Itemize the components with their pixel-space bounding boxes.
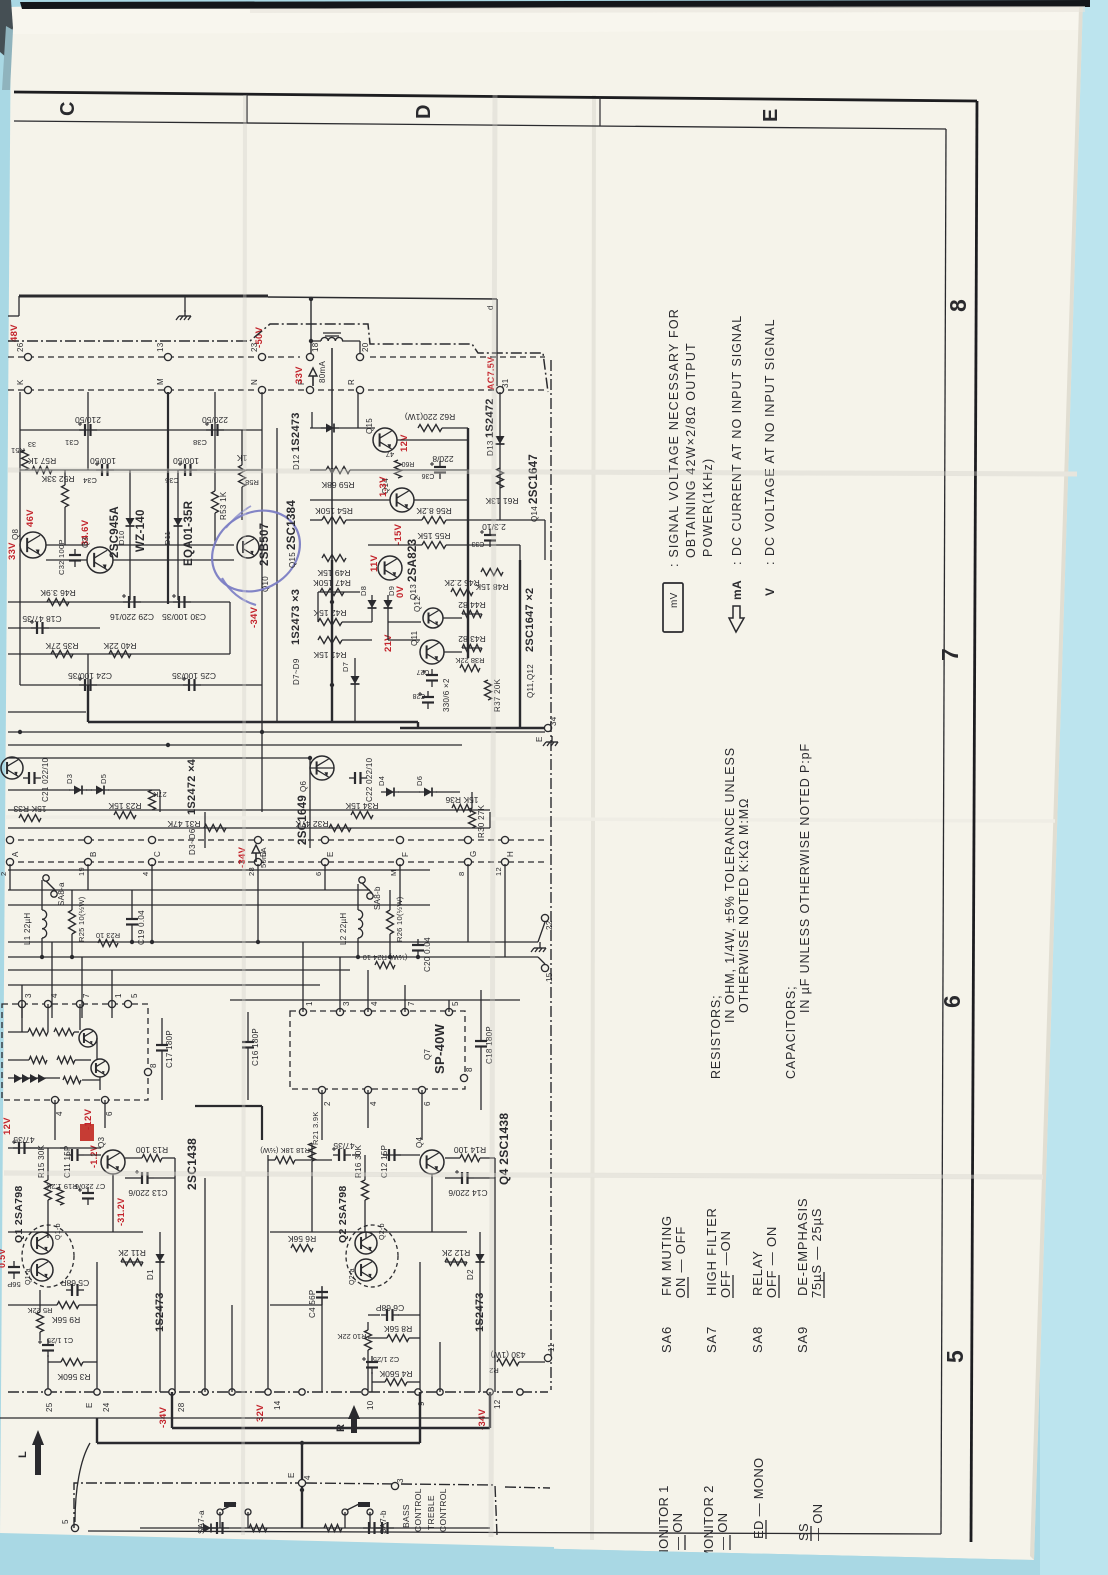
resistor R44 82 <box>462 611 482 618</box>
svg-text:Q1-a: Q1-a <box>25 1268 32 1285</box>
svg-text:7: 7 <box>82 993 91 998</box>
svg-text:C13 220/6: C13 220/6 <box>128 1188 167 1198</box>
transistor Q12 <box>423 608 443 628</box>
bus junction terminal <box>45 1389 51 1395</box>
svg-text:18: 18 <box>311 342 320 352</box>
svg-text:SS: SS <box>796 1523 811 1541</box>
terminal 19/B <box>84 836 91 843</box>
svg-text:Q11,Q12: Q11,Q12 <box>526 664 535 698</box>
svg-text:R4 560K: R4 560K <box>379 1369 412 1379</box>
boundary chain bottom bus <box>8 1391 548 1393</box>
wire dashed row y840 <box>8 839 548 841</box>
resistor R8 56K <box>387 1335 409 1342</box>
svg-text:Q1 2SA798: Q1 2SA798 <box>13 1185 25 1243</box>
terminal 13 <box>164 353 171 360</box>
switch SA8-a <box>43 875 49 881</box>
fold crease horizontal <box>6 817 1055 821</box>
resistor R12 2K <box>445 1259 467 1266</box>
svg-text:C27: C27 <box>416 668 429 675</box>
svg-text:24: 24 <box>102 1402 111 1412</box>
module SP-40W pin 4 <box>364 1008 371 1015</box>
R channel arrow <box>348 1405 360 1419</box>
scanner background bottom band <box>0 1536 1040 1575</box>
hybrid module left dashed box <box>2 1004 148 1100</box>
svg-text:Q15: Q15 <box>288 552 297 568</box>
svg-text:MONITOR 2: MONITOR 2 <box>701 1485 716 1560</box>
capacitor C32 100P <box>69 554 81 556</box>
capacitor C2 1/25 <box>366 1361 378 1363</box>
svg-text:1S2473 ×3: 1S2473 ×3 <box>290 589 302 645</box>
svg-text:1.3V: 1.3V <box>378 476 389 497</box>
wire input left nets <box>8 1147 40 1149</box>
svg-text:ED — MONO: ED — MONO <box>751 1458 766 1539</box>
svg-text:47/35: 47/35 <box>333 1141 355 1151</box>
ground symbol near 22 <box>539 942 541 948</box>
svg-text:11: 11 <box>547 1343 556 1352</box>
module L pin 4 bottom <box>51 1096 58 1103</box>
svg-text:: DC CURRENT AT NO INPUT SIGNA: : DC CURRENT AT NO INPUT SIGNAL <box>730 315 744 565</box>
svg-text:100/50: 100/50 <box>90 456 116 466</box>
capacitor C30 100/35 <box>178 596 180 608</box>
transistor Q3 input 2SC1438 <box>101 1150 125 1174</box>
svg-text:R: R <box>335 1424 347 1432</box>
module L resistors <box>28 1029 48 1036</box>
wire curve to terminal 5 <box>75 1443 90 1522</box>
wire thin y1418 <box>0 1417 490 1419</box>
svg-text:19: 19 <box>77 867 86 876</box>
wire center rail x332 <box>331 348 333 560</box>
svg-text:1: 1 <box>114 993 123 998</box>
svg-text:-31.2V: -31.2V <box>116 1198 126 1226</box>
inductor L1 22uH <box>41 880 43 910</box>
wire Q10 collector drop <box>276 428 278 722</box>
svg-text:R41 15K: R41 15K <box>313 650 346 660</box>
svg-text:R14 100: R14 100 <box>454 1145 486 1155</box>
terminal 8/G <box>464 836 471 843</box>
capacitor C19 0.04 <box>126 918 138 920</box>
svg-text:DE-EMPHASIS: DE-EMPHASIS <box>795 1198 810 1296</box>
svg-text:E: E <box>85 1402 94 1408</box>
svg-text:C14 220/6: C14 220/6 <box>448 1188 487 1198</box>
svg-text:mV: mV <box>669 592 680 608</box>
wire input right nets <box>267 1155 269 1392</box>
svg-text:R43 82: R43 82 <box>458 634 486 644</box>
capacitor C29 220/16 <box>128 596 130 608</box>
resistor R53 1K <box>212 491 219 513</box>
svg-text:0.5V: 0.5V <box>0 1248 7 1268</box>
svg-text:4: 4 <box>303 1475 312 1480</box>
svg-text:R11 2K: R11 2K <box>118 1248 146 1258</box>
wire dashed row y862 <box>8 861 548 863</box>
svg-text:4: 4 <box>141 872 150 876</box>
diode D10 zener WZ-140 <box>126 518 135 526</box>
svg-text:C35: C35 <box>165 476 179 485</box>
svg-text:Q12: Q12 <box>413 596 422 612</box>
svg-text:R35 27K: R35 27K <box>45 641 78 651</box>
svg-text:M: M <box>156 378 165 385</box>
resistor R47 150K <box>320 589 344 596</box>
svg-text:D2: D2 <box>466 1269 475 1280</box>
resistor R32 47K <box>329 825 351 832</box>
svg-text:12: 12 <box>493 1399 502 1409</box>
diode D8 <box>368 600 377 608</box>
fold wash horizontal overlay 2 <box>4 1173 1043 1177</box>
svg-text:C25 100/35: C25 100/35 <box>172 671 216 681</box>
legend mA arrow symbol <box>729 606 744 632</box>
svg-text:TREBLE: TREBLE <box>426 1495 436 1530</box>
svg-text:D1: D1 <box>146 1269 155 1280</box>
wire module rails <box>8 889 370 891</box>
capacitor C33 2.3/10 <box>484 534 496 536</box>
transistor Q8 <box>20 532 46 558</box>
wire output rail bold x468 <box>467 428 469 658</box>
module SP-40W pin 1 <box>299 1008 306 1015</box>
terminal 5 <box>71 1524 78 1531</box>
resistor R54 150K <box>322 517 346 524</box>
resistor R37 20K <box>485 680 492 700</box>
wire long rail y758 <box>8 757 310 759</box>
frame inner thin right line <box>941 129 946 1534</box>
svg-text:Q3: Q3 <box>81 536 90 548</box>
resistor R3 560K <box>61 1359 83 1366</box>
wire output bold rail x520 <box>519 560 521 728</box>
svg-text:R57 1K: R57 1K <box>27 456 56 466</box>
module SP-40W pin 2 bottom <box>318 1086 325 1093</box>
capacitor C5 68P <box>71 1284 73 1296</box>
svg-text:L: L <box>17 1451 29 1458</box>
fold crease horizontal <box>4 1173 1043 1177</box>
resistor R35 27K <box>51 651 73 658</box>
transistor Q4 input 2SC1438 <box>420 1150 444 1174</box>
switch SA8-b <box>359 877 365 883</box>
resistor R10 22K <box>365 1330 372 1350</box>
terminal 26 <box>24 353 31 360</box>
wire y470 out <box>310 469 326 471</box>
svg-text:8: 8 <box>465 1067 474 1072</box>
svg-text:C: C <box>153 851 162 857</box>
resistor R49 15K <box>322 555 346 562</box>
diode D7 <box>351 676 360 684</box>
svg-text:SA6: SA6 <box>659 1326 674 1353</box>
module L pin 1 <box>108 1000 115 1007</box>
svg-text:75µS — 25µS: 75µS — 25µS <box>809 1208 824 1298</box>
wire dashed terminal row lower <box>8 389 545 391</box>
resistor R59 68K <box>326 467 350 474</box>
svg-text:46V: 46V <box>25 509 36 527</box>
svg-text:E: E <box>760 108 782 122</box>
svg-text:11V: 11V <box>369 554 380 572</box>
svg-text:C34: C34 <box>83 476 97 485</box>
diode D3 <box>74 786 82 795</box>
bus junction terminal <box>362 1389 368 1395</box>
svg-text:15K R33: 15K R33 <box>13 804 46 814</box>
svg-text:K: K <box>16 379 25 385</box>
svg-text:2SC1647 ×2: 2SC1647 ×2 <box>524 588 536 652</box>
frame inner thin bottom line <box>88 1531 941 1534</box>
svg-text:12V: 12V <box>2 1117 13 1135</box>
transistor Q15 2SC1384 <box>373 428 397 452</box>
svg-text:: DC VOLTAGE AT NO INPUT SIGNA: : DC VOLTAGE AT NO INPUT SIGNAL <box>763 318 777 565</box>
svg-text:2SC1384: 2SC1384 <box>286 500 298 550</box>
wire Q3-Q10 base link <box>113 559 234 561</box>
resistor R34 15K <box>351 812 373 819</box>
hybrid module right dashed box SP-40W <box>290 1011 465 1089</box>
dark top-left page corner <box>0 0 13 58</box>
svg-text:HIGH FILTER: HIGH FILTER <box>704 1207 719 1296</box>
svg-text:23: 23 <box>250 342 259 352</box>
svg-text:RESISTORS;: RESISTORS; <box>709 995 723 1079</box>
svg-text:RELAY: RELAY <box>750 1250 765 1296</box>
svg-text:R46 3.9K: R46 3.9K <box>40 588 76 598</box>
current arrow 80mA <box>309 368 317 376</box>
svg-text:D3: D3 <box>65 774 74 784</box>
svg-text:C: C <box>57 101 79 116</box>
svg-text:Q2 2SA798: Q2 2SA798 <box>337 1185 349 1243</box>
resistor R11 2K <box>121 1259 143 1266</box>
terminal 28/D <box>254 836 261 843</box>
svg-text:7: 7 <box>407 1001 416 1006</box>
capacitor C35 100/50 <box>184 464 186 476</box>
svg-text:R19 1.2K: R19 1.2K <box>46 1182 77 1191</box>
svg-text:33V: 33V <box>294 366 305 384</box>
wire bold speaker link <box>195 1105 262 1107</box>
capacitor C3 56P <box>8 1266 20 1268</box>
svg-text:R52 33K: R52 33K <box>41 474 74 484</box>
svg-text:28: 28 <box>247 867 256 876</box>
resistor R25 10(1/2W) <box>69 910 76 934</box>
wire long rail y732 <box>8 731 545 733</box>
capacitor C31 210/50 <box>84 424 86 436</box>
diode D2 1S2473 <box>476 1254 485 1262</box>
svg-text:5: 5 <box>130 993 139 998</box>
junction dots rails <box>40 955 44 959</box>
terminal M/F <box>396 836 403 843</box>
module SP-40W pin 7 <box>401 1008 408 1015</box>
fold wash horizontal overlay <box>8 470 1077 474</box>
svg-text:47: 47 <box>386 450 394 459</box>
terminal 4/C <box>148 836 155 843</box>
svg-text:220/8: 220/8 <box>432 454 454 464</box>
svg-text:N: N <box>250 379 259 385</box>
svg-text:5: 5 <box>451 1001 460 1006</box>
capacitor C47 47/35 <box>338 1149 340 1161</box>
svg-text:R56 8.2K: R56 8.2K <box>416 506 452 516</box>
wire out lower rows <box>318 591 360 593</box>
diode D6 <box>424 788 432 797</box>
svg-text:C6 68P: C6 68P <box>375 1303 404 1313</box>
svg-text:4: 4 <box>55 1111 64 1116</box>
terminal 3 tone <box>391 1482 398 1489</box>
resistor R57 1K <box>32 467 52 474</box>
svg-text:R61 13K: R61 13K <box>485 496 518 506</box>
bus junction terminal <box>299 1389 305 1395</box>
diode D4 <box>386 788 394 797</box>
diode D9 <box>384 600 393 608</box>
bus junction terminal <box>265 1389 271 1395</box>
svg-text:6: 6 <box>314 872 323 876</box>
svg-text:D7~D9: D7~D9 <box>292 658 301 685</box>
fold crease horizontal <box>8 470 1077 474</box>
wire bus risers bottom <box>204 1178 206 1392</box>
capacitor C6 68P <box>386 1309 388 1321</box>
capacitor C25 100/35 <box>188 679 190 691</box>
svg-text:100/50: 100/50 <box>173 456 199 466</box>
svg-text:B: B <box>89 851 98 857</box>
svg-text:C19 0.04: C19 0.04 <box>137 910 146 945</box>
wire grid left mid <box>8 601 230 603</box>
svg-text:R40 22K: R40 22K <box>103 641 136 651</box>
bus junction terminal <box>487 1389 493 1395</box>
svg-text:8: 8 <box>457 872 466 876</box>
current arrow mid-bus <box>252 845 260 853</box>
terminal N <box>258 386 265 393</box>
bus junction terminal <box>229 1389 235 1395</box>
capacitor C11 15P <box>71 1149 73 1161</box>
wire module pin risers <box>21 985 23 1018</box>
capacitor C7 220/6 <box>82 1192 94 1194</box>
paper right edge shadow <box>1030 1 1083 1560</box>
svg-text:2SC1438: 2SC1438 <box>185 1138 199 1190</box>
svg-text:MONITOR 1: MONITOR 1 <box>656 1485 671 1560</box>
svg-text:1: 1 <box>305 1001 314 1006</box>
tone network wires <box>140 1527 490 1529</box>
svg-text:IN OHM, 1/4W, ±5% TOLERANCE UN: IN OHM, 1/4W, ±5% TOLERANCE UNLESS <box>723 747 737 1023</box>
capacitor C12 15P <box>388 1149 390 1161</box>
svg-text:R23 10: R23 10 <box>96 931 120 940</box>
svg-text:D5: D5 <box>99 774 108 784</box>
svg-text:R44 82: R44 82 <box>458 600 486 610</box>
transistor Q13 2SA823 <box>378 556 402 580</box>
boundary chain right vertical <box>550 360 552 1390</box>
terminal 11 <box>544 1354 551 1361</box>
resistor R51 33 <box>22 450 29 470</box>
svg-text:C24 100/35: C24 100/35 <box>68 671 112 681</box>
svg-text:-12V: -12V <box>83 1108 94 1130</box>
svg-text:330/6 ×2: 330/6 ×2 <box>442 678 451 712</box>
svg-text:C1 1/25: C1 1/25 <box>47 1336 73 1345</box>
module L inner wires <box>21 1004 23 1032</box>
svg-text:1S2473: 1S2473 <box>290 412 302 452</box>
svg-text:— ON: — ON <box>715 1513 730 1550</box>
blue pen circle around Q10 <box>197 494 315 607</box>
resistor R33 15K <box>19 815 41 822</box>
svg-text:A: A <box>11 851 20 857</box>
svg-text:BASS: BASS <box>401 1504 411 1528</box>
svg-text:R3 560K: R3 560K <box>57 1372 90 1382</box>
resistor R45 2.2K <box>451 589 473 596</box>
module L pin 5 <box>124 1000 131 1007</box>
terminal 23 <box>258 353 265 360</box>
wire Q14 row <box>414 499 468 501</box>
svg-text:Q4: Q4 <box>415 1136 424 1148</box>
svg-text:CONTROL: CONTROL <box>438 1488 448 1532</box>
svg-text:mA: mA <box>730 580 744 600</box>
diode D11 EQA01-35R <box>174 518 183 526</box>
fold crease vertical <box>491 95 495 1537</box>
svg-text:15: 15 <box>545 972 554 982</box>
svg-text:-15V: -15V <box>393 523 404 545</box>
resistor R27 27K <box>149 790 156 810</box>
wire horizontal y470 <box>20 469 262 471</box>
svg-text:CAPACITORS;: CAPACITORS; <box>784 986 798 1079</box>
svg-text:5: 5 <box>61 1519 70 1524</box>
svg-text:SP-40W: SP-40W <box>432 1023 447 1074</box>
capacitor C1 1/25 <box>42 1344 54 1346</box>
svg-text:E: E <box>287 1472 296 1478</box>
capacitor C16 180P <box>242 1041 254 1043</box>
resistor R61 13K <box>497 468 504 488</box>
red marker annotation box <box>80 1124 94 1141</box>
svg-text:R10 22K: R10 22K <box>337 1332 366 1341</box>
terminal 22 <box>541 914 548 921</box>
svg-text:C22 022/10: C22 022/10 <box>365 757 374 802</box>
svg-text:C33: C33 <box>471 540 484 547</box>
svg-text:R59 68K: R59 68K <box>321 480 354 490</box>
capacitor C20 0.04 <box>412 944 424 946</box>
terminal K <box>24 386 31 393</box>
svg-text:— ON: — ON <box>670 1513 685 1550</box>
svg-text:14: 14 <box>273 1400 282 1410</box>
bus junction terminal <box>517 1389 523 1395</box>
svg-text:4: 4 <box>369 1101 378 1106</box>
svg-text:3: 3 <box>342 1001 351 1006</box>
resistor R14 100 <box>460 1155 480 1162</box>
svg-text:C17 180P: C17 180P <box>165 1030 174 1068</box>
capacitor C34 100/50 <box>101 464 103 476</box>
svg-text:10: 10 <box>366 1400 375 1410</box>
wire terminal risers <box>9 864 11 890</box>
diode D12 <box>326 424 334 433</box>
wire vertical M rail bold <box>167 392 169 604</box>
svg-text:R13 100: R13 100 <box>136 1145 168 1155</box>
terminal R <box>356 386 363 393</box>
svg-text:Q8: Q8 <box>11 528 20 540</box>
grid divider tick D-E <box>599 97 601 126</box>
svg-text:SA9: SA9 <box>795 1326 810 1353</box>
svg-text:OFF —ON: OFF —ON <box>718 1230 733 1298</box>
svg-text:5: 5 <box>942 1350 968 1363</box>
svg-text:C18 47/35: C18 47/35 <box>22 614 61 624</box>
switch SA7-a <box>217 1509 223 1515</box>
transistor Q6 2SC1649 <box>310 756 334 780</box>
fold crease vertical <box>592 95 594 1540</box>
svg-text:D11: D11 <box>163 531 172 545</box>
resistor R15 30K <box>45 1180 52 1200</box>
svg-text:Q7: Q7 <box>423 1048 432 1060</box>
svg-text:2: 2 <box>0 872 8 876</box>
svg-text:R9 56K: R9 56K <box>51 1315 80 1325</box>
svg-text:210/50: 210/50 <box>75 415 101 425</box>
svg-text:430 (1W): 430 (1W) <box>490 1350 525 1360</box>
capacitor C18 180P <box>475 1040 487 1042</box>
svg-text:25: 25 <box>45 1402 54 1412</box>
capacitor C36 220/8 <box>434 466 446 468</box>
svg-text:FM MUTING: FM MUTING <box>659 1215 674 1296</box>
svg-text:R62 220(1W): R62 220(1W) <box>405 412 456 422</box>
module SP-40W pin 8 <box>460 1074 467 1081</box>
resistor R5 22K <box>37 1312 44 1332</box>
svg-text:C5 68P: C5 68P <box>60 1278 89 1288</box>
svg-text:6: 6 <box>423 1101 432 1106</box>
svg-text:— ON: — ON <box>810 1504 825 1541</box>
svg-text:SA8: SA8 <box>750 1326 765 1353</box>
svg-text:2SB507: 2SB507 <box>259 523 271 566</box>
capacitor C14 220/6 <box>461 1172 463 1184</box>
svg-text:C2 1/25: C2 1/25 <box>373 1355 399 1364</box>
wire Q8-Q3 link <box>46 544 87 546</box>
capacitor C22 .022/10 <box>354 772 356 784</box>
terminal M <box>164 386 171 393</box>
